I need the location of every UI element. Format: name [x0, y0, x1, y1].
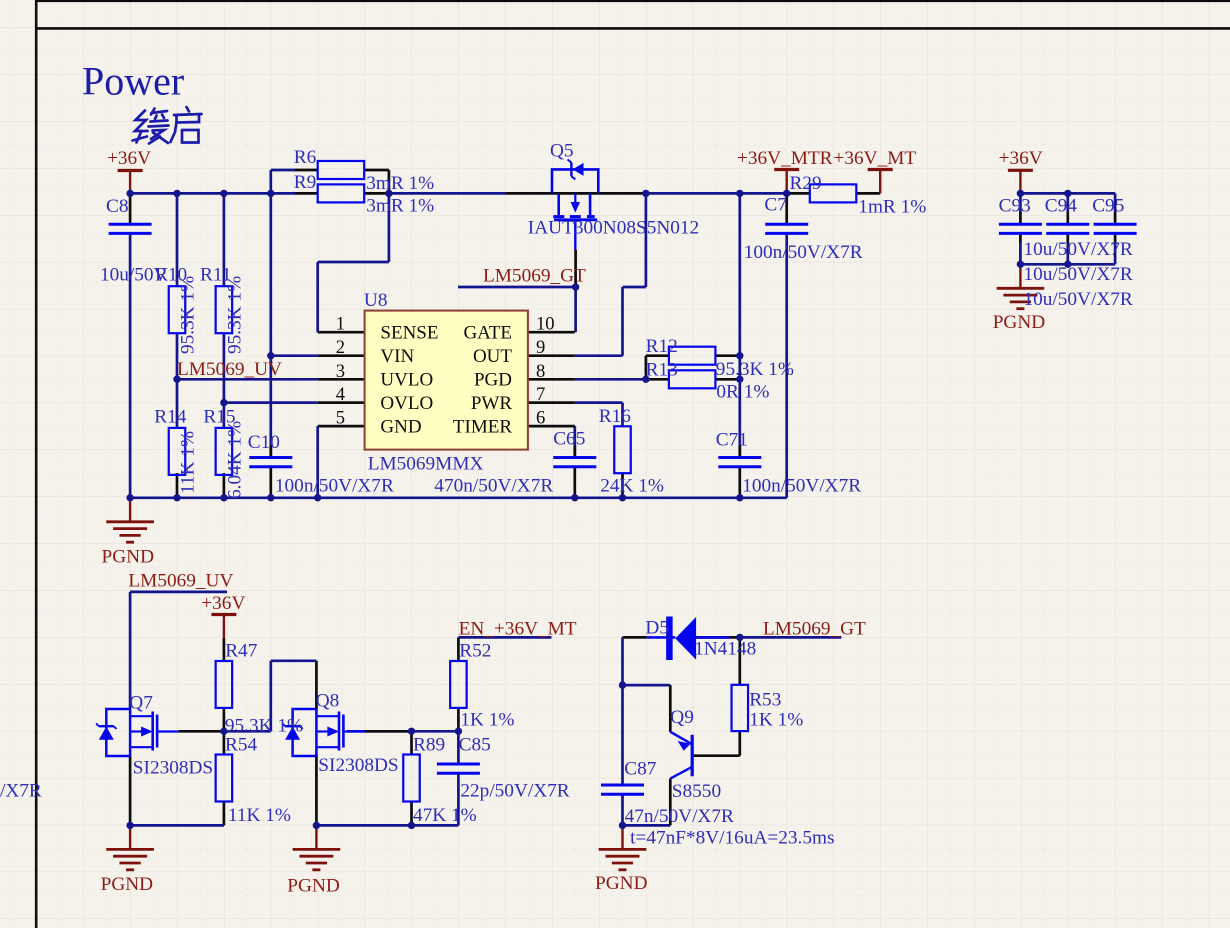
svg-text:95.3K 1%: 95.3K 1%	[224, 276, 245, 354]
svg-text:Q5: Q5	[550, 141, 574, 162]
svg-text:470n/50V/X7R: 470n/50V/X7R	[434, 476, 553, 497]
svg-text:S8550: S8550	[672, 781, 721, 802]
svg-text:C7: C7	[764, 195, 787, 216]
svg-text:2: 2	[336, 337, 345, 358]
svg-text:C71: C71	[716, 430, 748, 451]
svg-text:R53: R53	[749, 690, 781, 711]
svg-text:GND: GND	[380, 416, 421, 437]
svg-text:47K 1%: 47K 1%	[413, 805, 477, 826]
svg-text:1N4148: 1N4148	[694, 639, 756, 660]
svg-text:R52: R52	[459, 641, 491, 662]
svg-text:C93: C93	[999, 196, 1031, 217]
svg-text:R16: R16	[599, 406, 632, 427]
svg-text:1K 1%: 1K 1%	[460, 710, 514, 731]
svg-text:R29: R29	[790, 173, 822, 194]
svg-text:24K 1%: 24K 1%	[600, 476, 664, 497]
svg-text:+36V_MT: +36V_MT	[834, 148, 917, 169]
svg-text:47n/50V/X7R: 47n/50V/X7R	[625, 806, 734, 827]
svg-text:5: 5	[336, 408, 345, 429]
svg-text:C94: C94	[1045, 196, 1078, 217]
svg-text:U8: U8	[364, 290, 388, 311]
svg-text:PGND: PGND	[993, 312, 1046, 333]
svg-text:100n/50V/X7R: 100n/50V/X7R	[744, 242, 863, 263]
svg-text:10u/50V/X7R: 10u/50V/X7R	[1024, 264, 1133, 285]
svg-text:IAUT300N08S5N012: IAUT300N08S5N012	[528, 218, 699, 239]
svg-text:95.3K 1%: 95.3K 1%	[225, 716, 303, 737]
svg-text:8: 8	[536, 361, 545, 382]
svg-text:Power: Power	[82, 59, 184, 104]
svg-text:PGND: PGND	[101, 874, 154, 895]
svg-text:R89: R89	[413, 735, 445, 756]
svg-text:3mR 1%: 3mR 1%	[366, 173, 434, 194]
svg-text:R14: R14	[154, 407, 187, 428]
svg-text:11K 1%: 11K 1%	[228, 805, 291, 826]
svg-text:7: 7	[536, 384, 545, 405]
svg-text:9: 9	[536, 337, 545, 358]
svg-text:D5: D5	[645, 618, 669, 639]
svg-text:PGND: PGND	[595, 873, 648, 894]
svg-text:100n/50V/X7R: 100n/50V/X7R	[742, 476, 861, 497]
svg-text:R9: R9	[294, 172, 317, 193]
svg-text:LM5069_GT: LM5069_GT	[483, 266, 586, 287]
svg-text:R47: R47	[225, 641, 258, 662]
svg-text:R13: R13	[646, 360, 678, 381]
svg-text:C95: C95	[1092, 196, 1124, 217]
svg-text:6.04K 1%: 6.04K 1%	[224, 421, 245, 499]
svg-text:1mR 1%: 1mR 1%	[858, 197, 926, 218]
svg-text:R12: R12	[646, 336, 678, 357]
svg-text:10u/50V/X7R: 10u/50V/X7R	[1024, 239, 1133, 260]
svg-text:PGD: PGD	[474, 370, 512, 391]
svg-text:100n/50V/X7R: 100n/50V/X7R	[275, 476, 394, 497]
svg-text:11K 1%: 11K 1%	[178, 431, 199, 494]
svg-text:R54: R54	[225, 735, 258, 756]
svg-text:SENSE: SENSE	[380, 323, 438, 344]
svg-text:/X7R: /X7R	[0, 781, 42, 802]
svg-text:C87: C87	[624, 759, 657, 780]
svg-text:Q9: Q9	[670, 707, 694, 728]
svg-text:+36V: +36V	[107, 148, 151, 169]
svg-text:C85: C85	[459, 735, 491, 756]
svg-text:95.3K 1%: 95.3K 1%	[178, 276, 199, 354]
svg-text:0R 1%: 0R 1%	[716, 382, 769, 403]
svg-text:LM5069MMX: LM5069MMX	[368, 454, 484, 475]
svg-text:PWR: PWR	[471, 393, 513, 414]
svg-text:10u/50V/X7R: 10u/50V/X7R	[1024, 289, 1133, 310]
svg-text:R6: R6	[294, 147, 317, 168]
svg-text:t=47nF*8V/16uA=23.5ms: t=47nF*8V/16uA=23.5ms	[630, 828, 834, 849]
svg-text:GATE: GATE	[463, 323, 512, 344]
svg-text:SI2308DS: SI2308DS	[318, 755, 398, 776]
svg-text:+36V_MTR: +36V_MTR	[737, 148, 833, 169]
svg-text:+36V: +36V	[999, 148, 1043, 169]
svg-text:OVLO: OVLO	[380, 393, 433, 414]
svg-text:4: 4	[336, 384, 345, 405]
svg-text:LM5069_UV: LM5069_UV	[128, 571, 233, 592]
svg-text:10: 10	[536, 314, 555, 335]
svg-text:Q8: Q8	[316, 691, 340, 712]
svg-text:C10: C10	[248, 432, 280, 453]
svg-text:PGND: PGND	[287, 876, 340, 897]
svg-text:6: 6	[536, 408, 545, 429]
svg-text:VIN: VIN	[380, 346, 414, 367]
svg-text:C65: C65	[553, 429, 585, 450]
svg-text:TIMER: TIMER	[453, 416, 512, 437]
svg-text:22p/50V/X7R: 22p/50V/X7R	[460, 781, 569, 802]
svg-text:1K 1%: 1K 1%	[749, 710, 803, 731]
svg-text:3: 3	[336, 361, 345, 382]
svg-text:3mR 1%: 3mR 1%	[366, 196, 434, 217]
svg-text:OUT: OUT	[473, 346, 512, 367]
svg-text:+36V: +36V	[201, 593, 245, 614]
svg-text:SI2308DS: SI2308DS	[133, 758, 213, 779]
svg-text:PGND: PGND	[102, 547, 155, 568]
svg-text:LM5069_UV: LM5069_UV	[177, 359, 282, 380]
svg-text:UVLO: UVLO	[380, 370, 433, 391]
svg-text:LM5069_GT: LM5069_GT	[763, 619, 866, 640]
svg-text:C8: C8	[106, 196, 129, 217]
svg-text:EN_+36V_MT: EN_+36V_MT	[459, 619, 577, 640]
svg-text:95.3K 1%: 95.3K 1%	[716, 359, 794, 380]
svg-text:1: 1	[336, 314, 345, 335]
svg-text:Q7: Q7	[129, 693, 153, 714]
